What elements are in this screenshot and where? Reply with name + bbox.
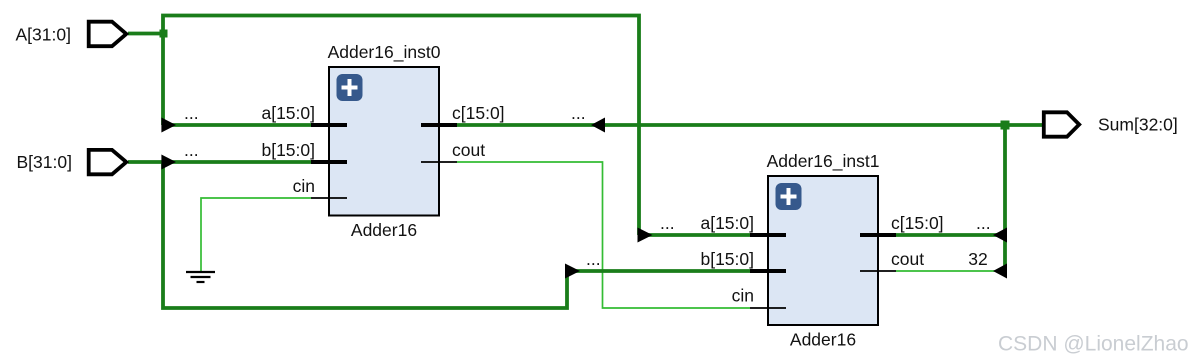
pin b[15:0] stub inst1 bbox=[750, 269, 786, 273]
arrow into inst0 a bbox=[161, 118, 176, 133]
svg-text:Adder16_inst1: Adder16_inst1 bbox=[767, 151, 880, 172]
svg-text:a[15:0]: a[15:0] bbox=[261, 103, 315, 123]
svg-text:Adder16: Adder16 bbox=[351, 220, 417, 240]
wire a input of inst0 bbox=[163, 123, 311, 127]
wire bottom b path to Adder16_inst1 b pin bbox=[163, 162, 750, 308]
node junction at A port bbox=[160, 30, 168, 38]
pin cin stub inst0 bbox=[311, 197, 347, 199]
svg-text:Adder16_inst0: Adder16_inst0 bbox=[328, 42, 441, 63]
wire A bus: top + vertical + bottom to inst1 b bbox=[163, 16, 639, 236]
svg-text:...: ... bbox=[586, 249, 601, 269]
pin a[15:0] stub inst1 bbox=[750, 233, 786, 237]
arrow from inst1 cout to Sum branch bbox=[993, 264, 1007, 279]
wire a input of inst1 bbox=[639, 233, 750, 237]
output port Sum[32:0] bbox=[1044, 112, 1079, 136]
svg-text:...: ... bbox=[660, 213, 675, 233]
block U2 Adder16_inst1 bbox=[768, 176, 878, 325]
arrow into inst1 b bbox=[565, 264, 580, 279]
svg-text:...: ... bbox=[184, 140, 199, 160]
wire cout output of inst1 (thin) bbox=[896, 270, 1005, 272]
svg-text:cin: cin bbox=[293, 176, 315, 196]
svg-text:CSDN @LionelZhao: CSDN @LionelZhao bbox=[998, 333, 1189, 356]
plus icon inst0 bbox=[337, 74, 363, 101]
wire from port A bbox=[128, 32, 163, 36]
svg-text:...: ... bbox=[571, 103, 586, 123]
svg-text:32: 32 bbox=[968, 249, 987, 269]
arrow into inst0 b bbox=[161, 155, 176, 170]
svg-text:c[15:0]: c[15:0] bbox=[891, 213, 944, 233]
svg-text:Adder16: Adder16 bbox=[790, 330, 856, 350]
arrow into inst1 a bbox=[638, 228, 653, 243]
input port A[31:0] bbox=[89, 22, 127, 47]
pin a[15:0] stub inst0 bbox=[311, 123, 347, 127]
plus icon inst1 bbox=[776, 183, 802, 210]
svg-text:...: ... bbox=[184, 103, 199, 123]
svg-text:...: ... bbox=[976, 213, 991, 233]
input port B[31:0] bbox=[89, 150, 127, 174]
pin c[15:0] stub inst0 bbox=[421, 123, 457, 127]
svg-text:b[15:0]: b[15:0] bbox=[261, 140, 315, 160]
wire Sum vertical branch bbox=[1003, 125, 1007, 271]
svg-text:Sum[32:0]: Sum[32:0] bbox=[1098, 115, 1178, 135]
wire cout of inst0 to cin of inst1 bbox=[457, 162, 750, 308]
svg-text:c[15:0]: c[15:0] bbox=[452, 103, 505, 123]
wire c output of inst1 bbox=[896, 233, 1005, 237]
wire cin of inst0 to ground bbox=[201, 198, 311, 271]
svg-text:B[31:0]: B[31:0] bbox=[17, 152, 72, 172]
wire b input of inst0 bbox=[128, 160, 311, 164]
arrow from inst1 c to Sum branch bbox=[993, 228, 1007, 243]
svg-text:a[15:0]: a[15:0] bbox=[700, 213, 754, 233]
block U1 Adder16_inst0 bbox=[329, 67, 439, 216]
pin b[15:0] stub inst0 bbox=[311, 160, 347, 164]
pin cout stub inst1 bbox=[860, 270, 896, 272]
pin cout stub inst0 bbox=[421, 161, 457, 163]
svg-text:cout: cout bbox=[452, 140, 485, 160]
pin cin stub inst1 bbox=[750, 307, 786, 309]
svg-text:b[15:0]: b[15:0] bbox=[700, 249, 754, 269]
ground bbox=[186, 272, 215, 282]
svg-text:cin: cin bbox=[732, 286, 754, 306]
svg-text:cout: cout bbox=[891, 249, 924, 269]
arrow on Sum bus bbox=[591, 118, 605, 133]
pin c[15:0] stub inst1 bbox=[860, 233, 896, 237]
wire Sum bus bbox=[457, 123, 1044, 127]
node junction at Sum branch bbox=[1001, 121, 1010, 130]
svg-text:A[31:0]: A[31:0] bbox=[16, 25, 71, 45]
